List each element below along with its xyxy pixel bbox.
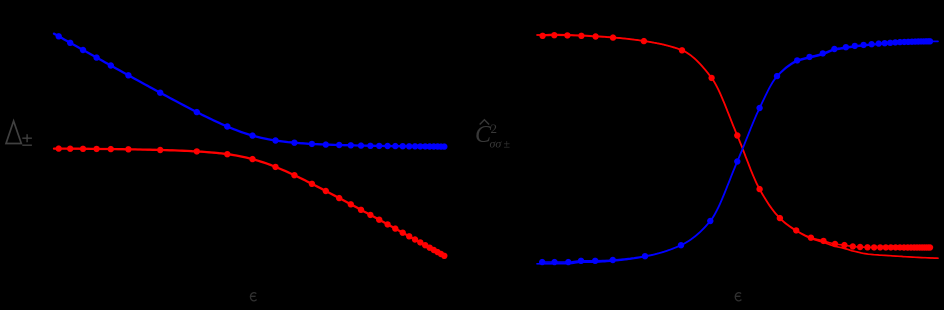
right panel red data polyline [543,35,930,247]
right panel blue data polyline [543,41,930,262]
left panel blue data markers [56,33,448,150]
right panel red fit line [537,35,938,259]
svg-text:±: ± [504,137,511,151]
left panel red data markers [56,145,448,259]
y-axis label Delta_pm (left panel) [6,121,32,145]
right panel blue data markers [539,38,933,265]
right panel red data markers [539,32,933,251]
svg-text:2: 2 [491,121,498,136]
svg-text:σσ: σσ [490,137,503,151]
left panel blue curve (upper branch of avoided crossing) [54,34,446,147]
y-axis label C-hat^2_sigmasigma_pm (right panel) [475,121,511,151]
x-axis label epsilon (left panel) [250,293,256,301]
x-axis label epsilon (right panel) [735,293,741,301]
left panel red curve (lower branch of avoided crossing) [54,149,446,257]
right panel blue fit line [537,41,938,263]
hat accent over C [480,120,489,125]
